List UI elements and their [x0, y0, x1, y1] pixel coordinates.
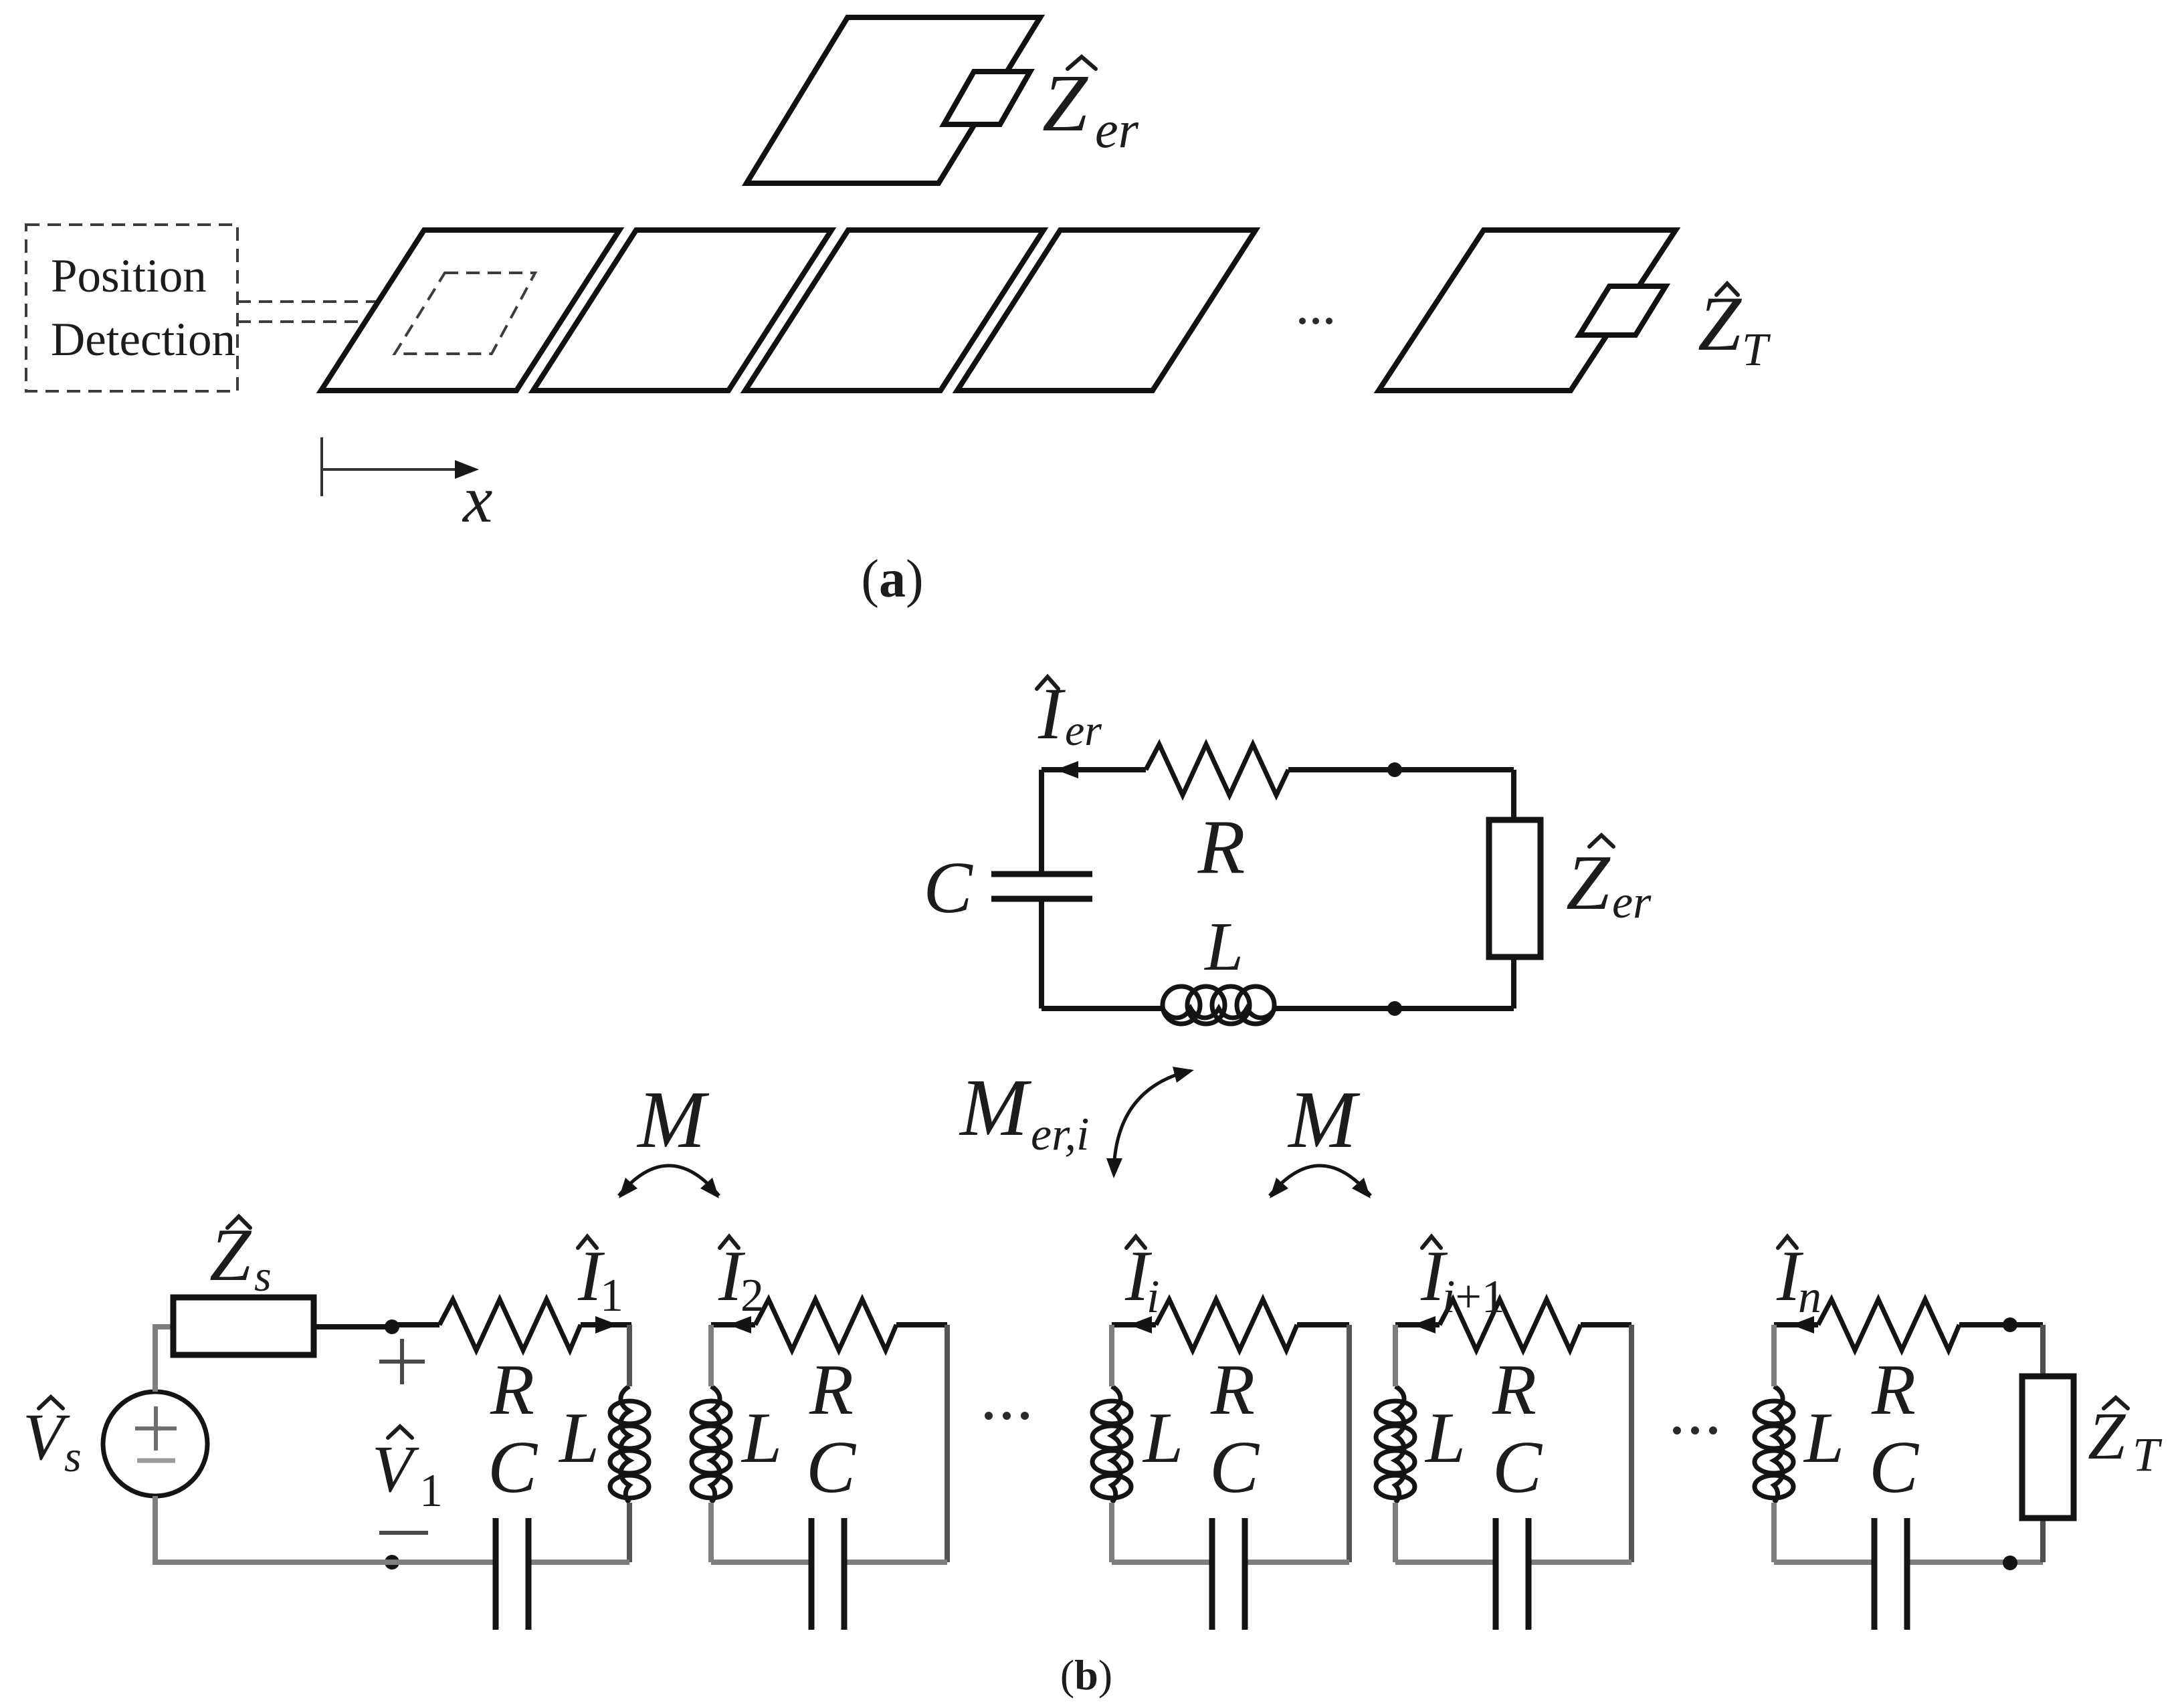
source minus sign: [137, 1459, 175, 1463]
svg-text:C: C: [488, 1426, 538, 1509]
svg-text:R: R: [1210, 1350, 1255, 1430]
svg-text:Detection: Detection: [51, 314, 235, 366]
svg-text:M: M: [636, 1075, 710, 1165]
resonator i bottom wire: [1112, 1560, 1209, 1565]
resonator i+1 right wire: [1629, 1325, 1634, 1562]
resonator i+1 left wire: [1393, 1325, 1398, 1386]
resonator 1 right wire: [627, 1325, 632, 1386]
resistor R of er resonator: [1146, 744, 1288, 795]
svg-text:R: R: [1197, 805, 1246, 890]
resonator 2 bottom wire: [711, 1560, 809, 1565]
source plus sign: [135, 1406, 177, 1451]
label Z_er (hat): [1068, 57, 1096, 69]
port plus sign: [379, 1339, 425, 1384]
node dot top of port 1: [385, 1319, 399, 1334]
dashed callout wire lower: [237, 320, 413, 323]
inductor L of resonator 2 (left side): [692, 1386, 730, 1503]
terminated coil ZT parallelogram: [1379, 230, 1676, 391]
load impedance Z_er box: [1489, 820, 1541, 957]
svg-text:C: C: [806, 1426, 857, 1509]
wire Zs box to node 1: [314, 1324, 392, 1329]
capacitor C of resonator i: [1212, 1518, 1245, 1630]
transmitter coil 1 parallelogram: [321, 230, 619, 391]
wire source to Zs box: [155, 1327, 175, 1392]
resonator 2 right wire: [945, 1325, 950, 1562]
resonator 2 top wire: [711, 1322, 755, 1327]
svg-text:er: er: [1095, 100, 1139, 158]
resonator i right wire: [1347, 1325, 1352, 1562]
resistor R of resonator 1: [439, 1299, 581, 1350]
er resonator top wire: [1042, 767, 1146, 772]
capacitor C of er resonator: [991, 874, 1092, 899]
Position Detection dashed box: [26, 225, 237, 391]
junction dot top right of er resonator: [1387, 762, 1402, 777]
resonator n right wire: [2040, 1325, 2046, 1562]
svg-text:L: L: [1142, 1398, 1183, 1478]
svg-text:Z: Z: [1566, 839, 1611, 926]
svg-text:C: C: [923, 847, 973, 928]
transmitter coil 2 parallelogram: [533, 230, 831, 391]
resonator n left wire: [1771, 1325, 1777, 1386]
source impedance Z_s box: [173, 1297, 314, 1355]
label Z_er load (hat): [1589, 835, 1613, 847]
svg-text:1: 1: [600, 1270, 623, 1321]
coupling arrow M_er,i: [1114, 1071, 1190, 1172]
svg-text:L: L: [1803, 1398, 1844, 1478]
svg-text:T: T: [1742, 324, 1771, 376]
svg-text:er: er: [1612, 877, 1652, 928]
svg-text:C: C: [1869, 1426, 1920, 1509]
transmitter coil 3 parallelogram: [745, 230, 1044, 391]
svg-text:L: L: [558, 1398, 599, 1478]
label Z_s (hat): [227, 1216, 250, 1228]
svg-text:V: V: [372, 1432, 419, 1506]
node dot bottom right of resonator n: [2003, 1556, 2017, 1570]
svg-text:R: R: [490, 1350, 534, 1430]
label Z_T (hat): [1716, 284, 1738, 295]
er resonator left wire lower: [1039, 899, 1044, 1008]
svg-text:V: V: [23, 1400, 70, 1474]
label V_1 (hat): [388, 1426, 412, 1438]
inductor L of resonator 1 (right side): [610, 1386, 649, 1503]
er resonator left wire: [1039, 770, 1044, 871]
svg-text:I: I: [1037, 673, 1066, 754]
port minus sign: [379, 1531, 428, 1535]
svg-text:T: T: [2133, 1428, 2163, 1481]
resonator i+1 top wire: [1395, 1322, 1440, 1327]
svg-text:M: M: [959, 1063, 1032, 1153]
node dot top right of resonator n: [2003, 1317, 2017, 1332]
svg-text:1: 1: [419, 1465, 443, 1517]
svg-text:L: L: [1203, 908, 1244, 985]
svg-text:2: 2: [740, 1270, 764, 1321]
label Z_T load (hat): [2104, 1398, 2128, 1408]
resistor R of resonator i: [1156, 1299, 1297, 1350]
svg-text:er: er: [1065, 706, 1102, 755]
dashed detected-position parallelogram inside coil 1: [395, 273, 535, 354]
capacitor C of resonator 2: [811, 1518, 844, 1630]
label I_2 (hat): [720, 1237, 738, 1248]
label I_er (hat): [1037, 677, 1058, 689]
label I_i (hat): [1126, 1237, 1145, 1248]
svg-text:i: i: [1147, 1271, 1159, 1323]
svg-text:L: L: [740, 1398, 782, 1478]
svg-text:n: n: [1798, 1271, 1821, 1323]
terminating impedance Z_T box: [2022, 1376, 2074, 1518]
receiver coil Zer parallelogram: [747, 17, 1040, 183]
resonator 1 bottom wire: [392, 1560, 493, 1565]
resonator n top wire: [1774, 1322, 1818, 1327]
capacitor C of resonator 1: [496, 1518, 528, 1630]
er resonator bottom wire: [1042, 1006, 1163, 1011]
voltage source Vs circle: [103, 1392, 207, 1496]
svg-text:Z: Z: [2088, 1398, 2126, 1473]
svg-text:R: R: [1871, 1350, 1916, 1430]
label V_s (hat): [39, 1397, 63, 1408]
svg-text:er,i: er,i: [1031, 1109, 1090, 1160]
resonator i+1 bottom wire: [1395, 1560, 1493, 1565]
svg-text:i+1: i+1: [1442, 1271, 1505, 1323]
ellipsis between resonator 2 and i: [985, 1412, 1029, 1420]
x axis arrow: [322, 468, 463, 471]
svg-text:(a): (a): [861, 550, 923, 609]
source loop bottom wire: [155, 1496, 493, 1562]
svg-text:C: C: [1492, 1426, 1543, 1509]
resonator 1 top wire: [392, 1322, 439, 1327]
er resonator right wire: [1511, 770, 1516, 820]
current arrow I_2: [728, 1316, 751, 1333]
resonator 2 left wire: [708, 1325, 714, 1386]
svg-text:R: R: [809, 1350, 854, 1430]
inductor L of resonator n (left side): [1755, 1386, 1793, 1503]
resistor R of resonator 2: [755, 1299, 896, 1350]
label I_n (hat): [1778, 1237, 1797, 1248]
x axis origin tick: [320, 437, 323, 496]
svg-text:s: s: [64, 1432, 82, 1481]
ellipsis between resonator i+1 and n: [1673, 1426, 1717, 1434]
svg-text:(b): (b): [1060, 1651, 1112, 1699]
inductor L of resonator i (left side): [1092, 1386, 1131, 1503]
resistor R of resonator n: [1818, 1299, 1959, 1350]
svg-text:Z: Z: [209, 1214, 252, 1297]
dashed callout wire upper: [237, 300, 423, 303]
resistor R of resonator i+1: [1440, 1299, 1581, 1350]
current arrow I_i: [1129, 1316, 1152, 1333]
svg-text:Position: Position: [51, 250, 207, 302]
inductor L of resonator i+1 (left side): [1376, 1386, 1415, 1503]
svg-text:Z: Z: [1042, 58, 1088, 148]
junction dot bottom right of er resonator: [1387, 1001, 1402, 1016]
resonator i left wire: [1109, 1325, 1114, 1386]
resonator n right wire (darker): [2040, 1325, 2046, 1376]
coupling arc M right: [1270, 1166, 1371, 1196]
coupling arc M left: [619, 1166, 719, 1196]
current arrow I_er: [1056, 761, 1078, 778]
port pad on terminated coil: [1579, 286, 1666, 335]
current arrow I_i+1: [1413, 1316, 1435, 1333]
svg-text:Z: Z: [1698, 281, 1743, 367]
svg-text:M: M: [1287, 1075, 1361, 1165]
label I_1 (hat): [578, 1237, 597, 1248]
resonator i top wire: [1112, 1322, 1156, 1327]
node dot bottom of port 1: [385, 1555, 399, 1570]
ellipsis between transmitter coils: [1299, 318, 1332, 324]
svg-text:s: s: [254, 1252, 272, 1301]
current arrow I_1: [595, 1316, 618, 1333]
svg-text:R: R: [1492, 1350, 1537, 1430]
svg-text:x: x: [462, 462, 492, 536]
label I_i+1 (hat): [1422, 1237, 1441, 1248]
inductor L of er resonator: [1163, 986, 1275, 1024]
svg-text:L: L: [1424, 1398, 1466, 1478]
capacitor C of resonator i+1: [1496, 1518, 1528, 1630]
current arrow I_n: [1791, 1316, 1814, 1333]
transmitter coil 4 parallelogram: [957, 230, 1256, 391]
resonator n bottom wire: [1774, 1560, 1872, 1565]
port pad on receiver coil: [944, 72, 1030, 124]
svg-text:C: C: [1209, 1426, 1260, 1509]
capacitor C of resonator n: [1874, 1518, 1907, 1630]
